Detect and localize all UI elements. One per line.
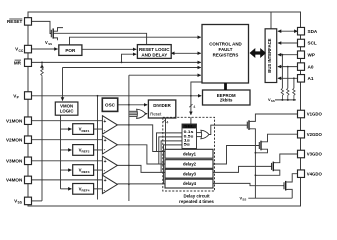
svg-text:REF4: REF4 <box>82 189 90 193</box>
svg-text:WP: WP <box>308 52 315 57</box>
svg-text:SS: SS <box>48 42 52 46</box>
svg-text:delay3: delay3 <box>183 171 197 176</box>
svg-text:Reset: Reset <box>150 112 162 117</box>
svg-text:BUS INTERFACE: BUS INTERFACE <box>267 38 272 72</box>
svg-text:REGISTERS: REGISTERS <box>213 53 239 58</box>
svg-text:OSC: OSC <box>105 102 116 107</box>
svg-text:MR: MR <box>14 60 22 65</box>
svg-text:V4MON: V4MON <box>6 178 23 183</box>
svg-text:+: + <box>104 159 107 165</box>
svg-text:2kbits: 2kbits <box>220 97 233 102</box>
svg-text:V1GDO: V1GDO <box>307 112 323 117</box>
svg-text:P: P <box>17 96 20 100</box>
svg-text:SEL: SEL <box>184 125 194 129</box>
svg-text:V4GDO: V4GDO <box>307 171 323 176</box>
svg-text:CC: CC <box>19 49 24 53</box>
svg-text:5s: 5s <box>184 143 191 147</box>
svg-text:SDA: SDA <box>308 29 318 34</box>
svg-text:delay2: delay2 <box>183 162 197 167</box>
svg-text:V1MON: V1MON <box>6 118 23 123</box>
svg-text:V2MON: V2MON <box>6 137 23 142</box>
svg-text:A1: A1 <box>308 76 314 81</box>
svg-text:SCL: SCL <box>308 41 317 46</box>
svg-text:DIVIDER: DIVIDER <box>153 103 171 108</box>
svg-text:FAULT: FAULT <box>219 47 233 52</box>
svg-text:delay4: delay4 <box>183 181 197 186</box>
svg-text:V3GDO: V3GDO <box>307 152 323 157</box>
svg-text:V2GDO: V2GDO <box>307 132 323 137</box>
svg-text:AND DELAY: AND DELAY <box>141 52 167 57</box>
svg-text:V3MON: V3MON <box>6 159 23 164</box>
svg-text:REF1: REF1 <box>82 129 90 133</box>
svg-text:+: + <box>104 178 107 184</box>
svg-text:CONTROL AND: CONTROL AND <box>209 42 242 47</box>
svg-text:SS: SS <box>271 99 275 103</box>
svg-text:4: 4 <box>166 119 169 124</box>
svg-text:repeated 4 times: repeated 4 times <box>179 199 214 204</box>
svg-text:RESET LOGIC: RESET LOGIC <box>139 47 170 52</box>
svg-text:SS: SS <box>18 201 23 205</box>
svg-text:delay1: delay1 <box>183 151 197 156</box>
svg-text:LOGIC: LOGIC <box>60 108 75 113</box>
svg-text:RESET: RESET <box>7 19 23 24</box>
svg-text:4: 4 <box>193 104 196 109</box>
svg-text:+: + <box>103 119 106 125</box>
svg-text:A0: A0 <box>308 64 314 69</box>
svg-text:SS: SS <box>242 198 246 202</box>
svg-text:REF3: REF3 <box>82 170 90 174</box>
svg-text:+: + <box>104 138 107 144</box>
svg-text:REF2: REF2 <box>82 150 90 154</box>
svg-text:POR: POR <box>65 48 76 53</box>
